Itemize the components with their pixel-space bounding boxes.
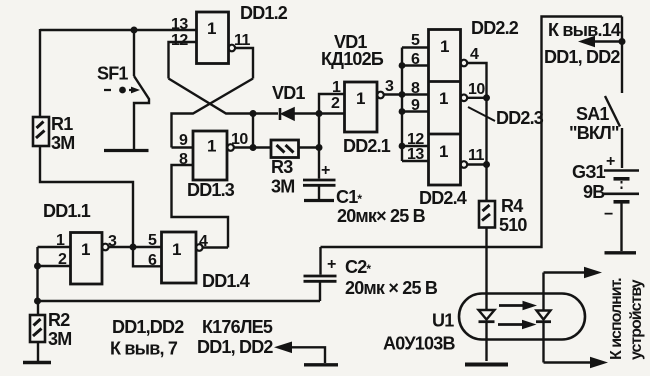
optocoupler U1 body bbox=[459, 294, 585, 340]
wire bottom rail bbox=[38, 300, 321, 302]
svg-text:U1: U1 bbox=[432, 311, 454, 331]
svg-text:К176ЛЕ5: К176ЛЕ5 bbox=[202, 317, 273, 337]
wire DD1.1 pin2 bbox=[38, 265, 71, 267]
svg-text:"ВКЛ": "ВКЛ" bbox=[569, 123, 619, 143]
pin 1 label bbox=[56, 232, 65, 249]
gate symbol 1 bbox=[356, 89, 365, 108]
svg-text:1: 1 bbox=[440, 37, 449, 56]
node junction DD2.1 pin2 bbox=[316, 110, 323, 117]
node junction pin14 arrow bbox=[619, 38, 626, 45]
wire R4 to LED bbox=[485, 228, 487, 310]
svg-text:К выв, 7: К выв, 7 bbox=[110, 339, 178, 359]
value label R2 3M bbox=[48, 310, 71, 349]
node junction pin9 bbox=[399, 108, 406, 115]
label DD2.1 bbox=[343, 136, 391, 156]
battery G31 bbox=[604, 171, 639, 252]
pin 10 output bubble bbox=[461, 95, 468, 102]
svg-text:510: 510 bbox=[499, 215, 527, 235]
pin 12 label bbox=[407, 131, 424, 148]
pin 8 label bbox=[411, 80, 420, 97]
svg-text:1: 1 bbox=[172, 240, 181, 259]
svg-text:GЗ1: GЗ1 bbox=[572, 162, 606, 182]
svg-text:К выв.14: К выв.14 bbox=[548, 20, 621, 40]
SF1 actuator dot and arrow bbox=[119, 87, 140, 94]
svg-text:11: 11 bbox=[468, 147, 485, 164]
value label C2 bbox=[345, 257, 438, 298]
svg-text:К исполнит.: К исполнит. bbox=[608, 278, 625, 360]
wire power rail C2 to SA1 column bbox=[321, 17, 623, 248]
label DD1, DD2 (top right) bbox=[544, 47, 620, 67]
label DD2.2 bbox=[471, 18, 519, 38]
svg-text:20мк × 25 В: 20мк × 25 В bbox=[345, 278, 438, 298]
label A0U103V bbox=[383, 334, 455, 354]
svg-text:SF1: SF1 bbox=[97, 64, 128, 84]
label SF1 bbox=[97, 64, 128, 84]
svg-text:DD1, DD2: DD1, DD2 bbox=[544, 47, 620, 67]
node junction pin10 bbox=[483, 94, 490, 101]
wire vertical between nodes bbox=[252, 114, 254, 148]
value label R3 3M bbox=[271, 157, 294, 197]
label K ispolnit. ustroystvu (rotated) bbox=[608, 278, 645, 360]
label VD1 (at diode) bbox=[272, 83, 305, 103]
svg-text:+: + bbox=[327, 256, 336, 273]
arrow to pin 14 bbox=[594, 40, 622, 42]
wire pin5 stub bbox=[402, 46, 429, 48]
battery minus sign bbox=[604, 206, 613, 223]
label U1 bbox=[432, 311, 454, 331]
pin 4 output bubble bbox=[196, 244, 203, 251]
pin 6 label bbox=[148, 252, 157, 269]
svg-text:2: 2 bbox=[331, 95, 340, 112]
svg-text:1: 1 bbox=[207, 19, 216, 38]
svg-text:13: 13 bbox=[407, 146, 424, 163]
label DD1.4 bbox=[202, 271, 250, 291]
svg-text:DD1.4: DD1.4 bbox=[202, 271, 250, 291]
svg-text:R2: R2 bbox=[48, 310, 70, 330]
wire cross-coupling diagonal from pin12 bbox=[169, 79, 254, 114]
label DD1.2 bbox=[240, 3, 288, 23]
arrow to DD1 DD2 power bbox=[291, 347, 325, 363]
svg-text:1: 1 bbox=[207, 137, 216, 156]
pin 3 output bubble bbox=[377, 92, 384, 99]
label DD1.1 bbox=[43, 201, 91, 221]
wire to DD2.1 pin2 bbox=[319, 112, 345, 114]
op gate DD1.3 bbox=[193, 131, 227, 180]
pin 5 label bbox=[411, 32, 420, 49]
svg-text:11: 11 bbox=[234, 32, 251, 49]
wire DD1.3 pin10 output bbox=[234, 146, 253, 148]
svg-text:+: + bbox=[606, 153, 615, 170]
svg-text:1: 1 bbox=[439, 142, 448, 161]
svg-text:8: 8 bbox=[411, 80, 420, 97]
wire DD1.4 output bbox=[203, 246, 228, 248]
resistor R4 bbox=[479, 201, 495, 228]
node junction pin12 bbox=[399, 143, 406, 150]
node junction SF1 tap bbox=[131, 27, 138, 34]
op gate DD2.1 bbox=[345, 82, 378, 132]
svg-text:VD1: VD1 bbox=[272, 83, 305, 103]
light arrow lower bbox=[498, 323, 523, 326]
C1 bottom terminal bar bbox=[304, 199, 334, 202]
svg-text:А0У103В: А0У103В bbox=[383, 334, 455, 354]
pin 3 label bbox=[108, 233, 117, 250]
wire DD1.3 pin8 to DD1.4 output bbox=[172, 165, 229, 248]
svg-text:C1*: C1* bbox=[336, 187, 362, 207]
gate symbol 1 bottom bbox=[439, 142, 448, 161]
wire DD2.1 output to bus / pin 8 bbox=[384, 93, 429, 95]
resistor R2 bbox=[30, 301, 45, 361]
C2 plus sign bbox=[327, 256, 336, 273]
diode VD1 bbox=[253, 108, 319, 120]
pin 11 output bubble bbox=[229, 45, 236, 52]
pin 4 output bubble bbox=[461, 60, 468, 67]
op gate DD1.1 bbox=[71, 233, 103, 285]
label G31 9V bbox=[572, 162, 606, 202]
pin 11 label bbox=[468, 147, 485, 164]
wire DD1.2 pin12 bbox=[169, 42, 197, 79]
pin 4 label bbox=[470, 46, 479, 63]
label DD1.3 bbox=[187, 180, 235, 200]
wire pin10 output bbox=[467, 97, 486, 99]
gate symbol 1 bbox=[207, 19, 216, 38]
switch SF1 bbox=[104, 76, 149, 149]
svg-text:1: 1 bbox=[356, 89, 365, 108]
svg-text:1: 1 bbox=[439, 89, 448, 108]
node junction pin11 bbox=[483, 161, 490, 168]
ground bar arrow terminal bbox=[304, 363, 338, 366]
label DD2.4 bbox=[419, 188, 467, 208]
wire pin12 stub bbox=[402, 145, 429, 147]
value label R4 510 bbox=[499, 196, 527, 235]
label DD1, DD2 (bottom) bbox=[197, 337, 273, 357]
wire down to C1 bbox=[318, 114, 320, 179]
pin 2 label bbox=[331, 95, 340, 112]
wire pin9 stub bbox=[402, 110, 429, 112]
svg-text:DD2.1: DD2.1 bbox=[343, 136, 391, 156]
gate symbol 1 middle bbox=[439, 89, 448, 108]
svg-text:R3: R3 bbox=[271, 157, 293, 177]
wire DD1.3 pin9 stub bbox=[172, 146, 194, 148]
svg-text:6: 6 bbox=[148, 252, 157, 269]
svg-text:5: 5 bbox=[148, 232, 157, 249]
wire left column down to R1 bbox=[39, 29, 41, 117]
wire DD1.1 input column bbox=[36, 247, 38, 301]
node junction R3 line bbox=[250, 144, 257, 151]
svg-text:3М: 3М bbox=[271, 177, 294, 197]
wire pin13 stub bbox=[402, 160, 429, 162]
node junction VD1 line bbox=[250, 110, 257, 117]
node junction pin8 bbox=[399, 91, 406, 98]
pin 12 label bbox=[171, 32, 188, 49]
svg-text:13: 13 bbox=[171, 16, 188, 33]
pin 11 label bbox=[234, 32, 251, 49]
wire pin11 output bbox=[467, 163, 486, 165]
label K vyv.14 bbox=[548, 20, 621, 40]
SF1 bottom terminal bar bbox=[104, 149, 149, 152]
wire DD1.1 output bbox=[109, 246, 133, 248]
pin 5 label bbox=[148, 232, 157, 249]
svg-text:+: + bbox=[321, 162, 330, 179]
svg-text:3М: 3М bbox=[48, 329, 71, 349]
battery plus sign bbox=[606, 153, 615, 170]
node junction C1/R3 bbox=[316, 144, 323, 151]
svg-text:DD1.2: DD1.2 bbox=[240, 3, 288, 23]
pin 3 output bubble bbox=[102, 244, 109, 251]
svg-text:5: 5 bbox=[411, 32, 420, 49]
wire top rail to DD1.2 pin13 bbox=[40, 29, 197, 31]
gate symbol 1 bbox=[172, 240, 181, 259]
node junction bottom rail bbox=[34, 298, 41, 305]
label DD2.3 with callout bbox=[468, 107, 495, 121]
svg-text:3М: 3М bbox=[51, 133, 74, 153]
resistor R3 bbox=[253, 140, 319, 158]
node junction pin6 bbox=[399, 62, 406, 69]
wire pin4 output bbox=[467, 63, 486, 201]
gate symbol 1 bbox=[81, 240, 90, 259]
pin 10 output bubble bbox=[227, 144, 234, 151]
gate symbol 1 top bbox=[440, 37, 449, 56]
label VD1 type bbox=[321, 32, 384, 69]
pin 2 label bbox=[58, 251, 67, 268]
svg-text:DD1.1: DD1.1 bbox=[43, 201, 91, 221]
wire DD1.1 pin1 bbox=[38, 246, 71, 248]
svg-text:9В: 9В bbox=[583, 182, 605, 202]
pin 11 output bubble bbox=[461, 161, 468, 168]
svg-text:SA1: SA1 bbox=[576, 104, 609, 124]
pin 10 label bbox=[468, 81, 485, 98]
wire pin6 stub bbox=[402, 64, 429, 66]
svg-text:1: 1 bbox=[332, 79, 341, 96]
wire output bottom with arrow bbox=[544, 361, 591, 363]
wire DD1.2 pin11 output bbox=[235, 48, 253, 79]
pin 4 label bbox=[199, 233, 208, 250]
wire output top with arrow bbox=[544, 271, 586, 273]
photodiode of U1 bbox=[536, 273, 551, 363]
pin 8 label bbox=[179, 151, 188, 168]
svg-text:9: 9 bbox=[411, 97, 420, 114]
wire R1 bottom to DD1.1 output node bbox=[40, 146, 133, 247]
label VKL bbox=[569, 123, 619, 143]
svg-text:C2*: C2* bbox=[345, 257, 371, 277]
wire to DD1.4 pin5 bbox=[133, 246, 162, 248]
node junction pin2 bbox=[34, 263, 41, 270]
pin 13 label bbox=[407, 146, 424, 163]
pin 3 label bbox=[385, 78, 394, 95]
svg-text:DD1, DD2: DD1, DD2 bbox=[197, 337, 273, 357]
C1 plus sign bbox=[321, 162, 330, 179]
ground bar under R2 bbox=[23, 361, 51, 364]
wire right vertical to switch bbox=[621, 17, 623, 94]
LED of U1 bbox=[479, 309, 495, 361]
pin 6 label bbox=[411, 51, 420, 68]
gate symbol 1 bbox=[207, 137, 216, 156]
svg-text:1: 1 bbox=[81, 240, 90, 259]
svg-text:R1: R1 bbox=[51, 114, 73, 134]
pin 9 label bbox=[179, 132, 188, 149]
svg-text:−: − bbox=[604, 206, 613, 223]
wire to DD1.4 pin6 bbox=[133, 247, 162, 266]
svg-text:R4: R4 bbox=[501, 196, 523, 216]
pin 1 label bbox=[332, 79, 341, 96]
pin 9 label bbox=[411, 97, 420, 114]
label K176LE5 bbox=[202, 317, 273, 337]
switch SA1 bbox=[605, 96, 622, 168]
svg-text:DD1.3: DD1.3 bbox=[187, 180, 235, 200]
op gate DD1.2 bbox=[197, 12, 229, 64]
op gate block DD2.2/DD2.3/DD2.4 bbox=[429, 30, 461, 186]
svg-text:DD1,DD2: DD1,DD2 bbox=[112, 317, 184, 337]
svg-text:устройству: устройству bbox=[628, 279, 645, 360]
svg-text:DD2.3: DD2.3 bbox=[496, 108, 544, 128]
wire DD2 input bus bbox=[401, 48, 403, 162]
value label C1 bbox=[336, 187, 426, 226]
battery bottom terminal bar bbox=[605, 251, 637, 254]
wire cross-coupling diagonal from pin11 bbox=[172, 79, 254, 148]
svg-text:DD2.2: DD2.2 bbox=[471, 18, 519, 38]
capacitor C1 bbox=[303, 180, 336, 199]
node junction DD1.1 output bbox=[130, 244, 137, 251]
svg-text:DD2.4: DD2.4 bbox=[419, 188, 467, 208]
op gate DD1.4 bbox=[162, 232, 197, 283]
light arrow upper bbox=[499, 304, 524, 307]
wire SF1 upper lead bbox=[133, 30, 135, 76]
pin 13 label bbox=[171, 16, 188, 33]
label SA1 bbox=[576, 104, 609, 124]
svg-text:10: 10 bbox=[468, 81, 485, 98]
label DD1,DD2 K vyv 7 bbox=[110, 317, 184, 359]
svg-text:КД102Б: КД102Б bbox=[321, 49, 384, 69]
value label R1 3M bbox=[51, 114, 74, 153]
capacitor C2 bbox=[304, 247, 337, 301]
pin 10 label bbox=[231, 131, 248, 148]
svg-text:3: 3 bbox=[385, 78, 394, 95]
svg-text:20мк× 25 В: 20мк× 25 В bbox=[337, 206, 426, 226]
wire to DD2.1 pin1 bbox=[319, 94, 345, 114]
ground bar under LED bbox=[465, 363, 508, 367]
svg-text:6: 6 bbox=[411, 51, 420, 68]
resistor R1 bbox=[33, 117, 49, 146]
svg-text:4: 4 bbox=[470, 46, 479, 63]
svg-text:12: 12 bbox=[171, 32, 188, 49]
